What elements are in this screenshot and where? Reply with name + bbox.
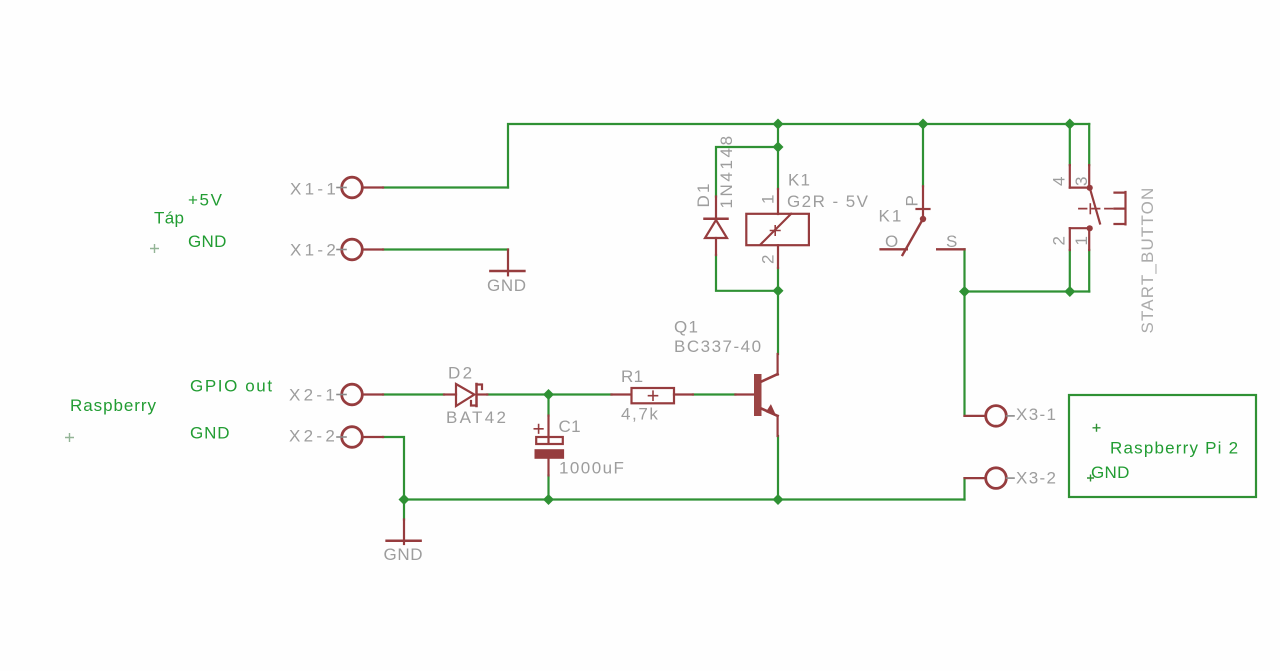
wire button pin 3 from +5V rail corner [1088,124,1090,165]
svg-text:GND: GND [188,232,227,251]
wire X3-2 to bottom rail [963,478,965,499]
wire button pin 2 to bottom node [1069,250,1071,292]
svg-text:O: O [885,232,898,251]
svg-text:4: 4 [1050,177,1069,186]
junction D1 bottom / relay pin 2 / Q1 collector [773,285,784,296]
svg-text:Raspberry Pi 2: Raspberry Pi 2 [1110,439,1239,458]
svg-text:Raspberry: Raspberry [70,396,157,415]
connector X2-2 [337,427,383,448]
wire node to C1 plus [547,395,549,416]
svg-text:1N4148: 1N4148 [717,133,736,208]
wire X2-1 to D2 anode [383,393,444,395]
wire X1-2 to GND symbol [383,248,508,250]
svg-text:1: 1 [1072,236,1091,245]
svg-text:G2R - 5V: G2R - 5V [787,192,869,211]
junction button pins 1-2 node [1064,286,1075,297]
wire C1 minus to bottom rail [547,475,549,499]
svg-text:S: S [946,232,957,251]
connector X3-2 [965,468,1015,489]
wire D1 bottom to collector node [716,255,778,291]
svg-text:START_BUTTON: START_BUTTON [1138,187,1157,334]
svg-text:C1: C1 [559,417,581,436]
origin cross Táp [150,244,159,253]
svg-text:BC337-40: BC337-40 [674,337,763,356]
wire button pin 1 to bottom node [1088,250,1090,292]
connector X1-2 [337,239,383,260]
wire switch S contact to X3-1 [963,249,965,416]
relay coil K1 G2R-5V [746,189,809,268]
svg-text:X1-1: X1-1 [290,180,339,199]
diode D1 1N4148 vertical [705,197,728,256]
svg-text:GND: GND [190,424,230,443]
wire +5V top rail [508,124,1089,188]
svg-text:X2-2: X2-2 [289,427,338,446]
svg-text:+5V: +5V [188,191,224,210]
wire D2 cathode to R1 [487,393,611,395]
push button START_BUTTON [1070,165,1126,250]
wire relay K1 pin 2 to collector node to Q1 collector [777,268,779,354]
svg-text:4,7k: 4,7k [621,405,660,424]
junction +5V rail / button pin 4 branch [1064,119,1075,130]
connector X3-1 [965,406,1015,427]
origin cross GND in Raspberry Pi 2 box [1087,475,1094,482]
ground symbol GND (X1-2) [490,250,524,276]
svg-text:K1: K1 [788,171,811,190]
svg-text:R1: R1 [621,367,643,386]
connector X2-1 [337,384,383,405]
wire X3-1 node to button pins 1/2 [965,290,1090,292]
transistor Q1 BC337-40 NPN [735,354,777,436]
junction GPIO wire / C1 branch [543,389,554,400]
svg-text:1000uF: 1000uF [559,459,625,478]
schottky diode D2 BAT42 horizontal [444,384,487,406]
wire switch K1 pole from +5V rail [922,124,924,186]
junction C1 / bottom rail [543,494,554,505]
junction +5V rail / switch pole branch [918,119,929,130]
origin cross Raspberry Pi 2 box [1093,424,1101,432]
wire node to relay K1 pin 1 [777,147,779,189]
svg-text:D2: D2 [448,364,474,383]
svg-text:Q1: Q1 [674,318,699,337]
wire X2-2 down to bottom rail [383,437,404,500]
svg-text:2: 2 [1050,236,1069,245]
svg-text:D1: D1 [694,181,713,207]
wire Q1 emitter to bottom rail [777,436,779,500]
svg-text:BAT42: BAT42 [446,408,508,427]
svg-text:1: 1 [759,195,778,204]
junction S contact wire / button wire [959,286,970,297]
svg-text:GND: GND [384,545,424,564]
resistor R1 4,7k [612,388,693,403]
svg-text:2: 2 [759,255,778,264]
capacitor C1 1000uF polarized [534,416,563,476]
ground symbol GND (X2-2) [387,520,421,545]
svg-text:GPIO out: GPIO out [190,377,274,396]
svg-text:P: P [903,195,922,206]
wire +5V rail drop to node [777,124,779,147]
svg-text:3: 3 [1072,177,1091,186]
wire R1 to Q1 base [693,393,736,395]
relay contact switch K1 [881,186,965,255]
wire button pin 4 from +5V rail [1069,124,1071,165]
junction D1 / relay pin 1 node [773,142,784,153]
wire GND2 stem green part [403,500,405,520]
svg-text:GND: GND [1091,463,1130,482]
connector X1-1 [337,177,383,198]
wire bottom GND rail [404,498,965,500]
svg-text:Táp: Táp [154,209,184,228]
frame Raspberry Pi 2 box [1069,395,1256,497]
junction Q1 emitter / bottom rail [773,494,784,505]
svg-text:K1: K1 [879,207,904,226]
svg-text:GND: GND [487,276,527,295]
origin cross Raspberry [65,433,74,442]
svg-text:X3-2: X3-2 [1016,469,1057,488]
svg-text:X1-2: X1-2 [290,241,339,260]
wire node to D1 top [716,147,778,197]
junction +5V rail / D1-relay branch [773,119,784,130]
junction X2-2 / GND2 / bottom rail [399,494,410,505]
svg-text:X2-1: X2-1 [289,386,338,405]
wire X1-1 to +5V rail [383,186,508,188]
svg-text:X3-1: X3-1 [1016,405,1057,424]
